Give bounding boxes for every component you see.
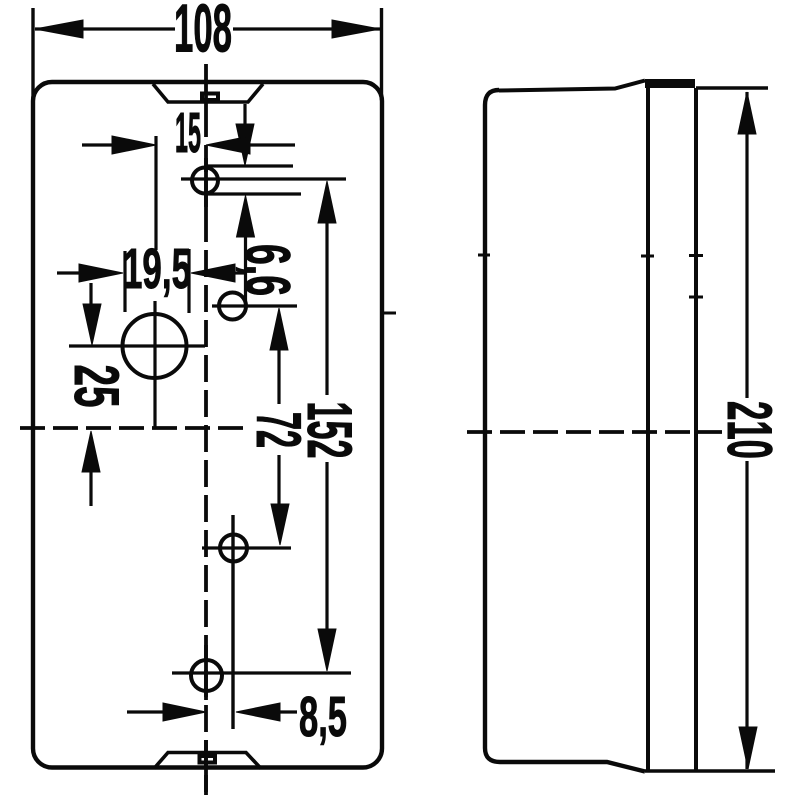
svg-text:19,5: 19,5 — [123, 237, 191, 301]
svg-text:15: 15 — [175, 101, 201, 165]
svg-text:6,6: 6,6 — [232, 244, 302, 296]
svg-text:152: 152 — [294, 402, 364, 459]
svg-text:108: 108 — [174, 0, 232, 67]
svg-text:25: 25 — [61, 365, 131, 408]
svg-text:8,5: 8,5 — [299, 685, 347, 749]
svg-text:210: 210 — [714, 401, 784, 459]
